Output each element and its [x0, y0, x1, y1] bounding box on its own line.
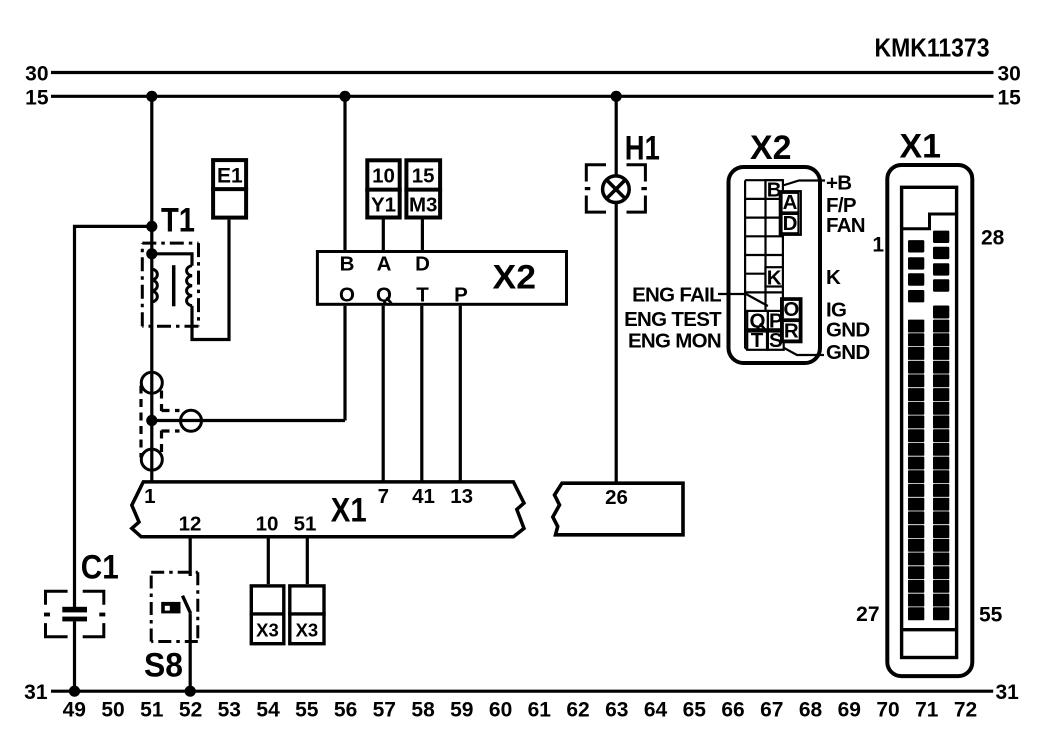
- svg-text:R: R: [784, 319, 799, 342]
- wire: distributor rotor horizontal line: [152, 419, 345, 422]
- svg-text:D: D: [783, 212, 798, 235]
- connector strip pin 26 outline: [553, 483, 683, 535]
- svg-text:66: 66: [721, 699, 744, 722]
- svg-text:51: 51: [140, 699, 164, 722]
- svg-text:53: 53: [218, 699, 241, 722]
- svg-text:72: 72: [954, 699, 977, 722]
- svg-text:O: O: [783, 298, 799, 321]
- svg-text:15: 15: [998, 87, 1022, 110]
- svg-text:56: 56: [334, 699, 357, 722]
- svg-text:51: 51: [294, 513, 317, 536]
- grid column numbers 49-72: [63, 699, 978, 722]
- svg-text:55: 55: [295, 699, 319, 722]
- connector X1 inner body: [902, 187, 957, 657]
- connector X1 top step: [902, 214, 957, 229]
- svg-text:65: 65: [683, 699, 707, 722]
- bus line 31: [51, 690, 993, 693]
- pointer line GND/S: [778, 345, 824, 355]
- connector X2 cell B: [766, 180, 783, 199]
- svg-text:X3: X3: [256, 620, 279, 641]
- svg-text:52: 52: [179, 699, 202, 722]
- svg-text:28: 28: [981, 227, 1005, 250]
- svg-text:P: P: [454, 284, 468, 307]
- junction distributor: [146, 415, 157, 426]
- junction line15/H1: [611, 91, 622, 102]
- svg-text:10: 10: [372, 164, 395, 187]
- switch S8 dash-dot box: [151, 572, 198, 641]
- transformer T1 primary coil: [152, 269, 158, 302]
- svg-text:63: 63: [605, 699, 628, 722]
- svg-text:K: K: [767, 266, 782, 289]
- lamp H1 dash-dot box: [586, 165, 645, 212]
- connector X2 cell T: [747, 332, 767, 350]
- wire: X2 strip pin P down to X1 strip pin 13: [459, 306, 462, 482]
- wire: X2 strip pin T down to X1 strip pin 41: [420, 306, 423, 482]
- svg-text:69: 69: [838, 699, 861, 722]
- connector X1 pins: [908, 231, 949, 621]
- svg-text:ENG TEST: ENG TEST: [624, 308, 722, 331]
- svg-text:10: 10: [256, 513, 279, 536]
- wire: line15 through lamp H1 down to strip 26: [615, 96, 618, 483]
- wire: branch at T1 going left to C1: [75, 226, 152, 607]
- svg-text:A: A: [377, 253, 392, 276]
- wire: T1 secondary top loop: [152, 254, 192, 266]
- wire: connector 15/M3 down to X2 strip pin D: [421, 219, 424, 250]
- connector X2 cell R: [783, 321, 800, 341]
- connector X1 bottom divider: [902, 628, 957, 631]
- svg-text:ENG FAIL: ENG FAIL: [632, 284, 721, 307]
- wire: switch S8 to bus 31: [189, 613, 192, 691]
- svg-text:31: 31: [24, 681, 48, 704]
- svg-text:1: 1: [872, 234, 884, 257]
- svg-text:B: B: [340, 253, 355, 276]
- svg-text:Q: Q: [376, 284, 392, 307]
- wire: X2 strip pin O down to distributor: [343, 306, 346, 421]
- svg-text:FAN: FAN: [826, 214, 865, 237]
- svg-text:13: 13: [450, 485, 473, 508]
- capacitor C1 dash-dot box: [46, 591, 104, 636]
- svg-text:T1: T1: [161, 202, 195, 240]
- connector strip X2 box: [317, 252, 566, 305]
- svg-text:67: 67: [760, 699, 783, 722]
- svg-text:Y1: Y1: [371, 193, 396, 216]
- capacitor C1 plates: [62, 607, 87, 613]
- svg-text:27: 27: [856, 603, 879, 626]
- svg-text:S8: S8: [144, 647, 183, 685]
- distributor dashed outline: [141, 386, 180, 458]
- bus line 30: [51, 71, 994, 74]
- svg-text:30: 30: [998, 63, 1021, 86]
- svg-text:O: O: [339, 284, 355, 307]
- pointer line ENG FAIL: [718, 294, 768, 306]
- svg-text:X1: X1: [331, 492, 367, 530]
- svg-text:49: 49: [63, 699, 86, 722]
- wire: C1 bottom plate to bus 31: [73, 621, 76, 691]
- svg-text:70: 70: [876, 699, 899, 722]
- svg-text:GND: GND: [826, 341, 869, 364]
- svg-text:M3: M3: [409, 193, 437, 216]
- svg-text:1: 1: [144, 485, 155, 508]
- svg-text:X2: X2: [493, 259, 537, 297]
- connector X2 cell K: [766, 267, 783, 286]
- svg-text:58: 58: [411, 699, 435, 722]
- E1 box divider: [211, 187, 248, 191]
- svg-text:T: T: [416, 284, 429, 307]
- distributor bottom contact circle: [141, 449, 162, 470]
- junction T1/C1 branch: [146, 221, 157, 232]
- svg-text:C1: C1: [81, 549, 119, 587]
- svg-text:30: 30: [25, 63, 48, 86]
- connector X2 pinout body: [729, 167, 821, 363]
- svg-text:KMK11373: KMK11373: [875, 33, 990, 63]
- junction line31/S8: [185, 686, 196, 697]
- svg-text:59: 59: [450, 699, 473, 722]
- svg-text:ENG MON: ENG MON: [628, 330, 721, 353]
- transformer T1 core: [172, 265, 176, 306]
- wire: line15 to T1 primary and distributor down to connector X1 pin 1: [150, 96, 153, 482]
- svg-text:41: 41: [412, 485, 435, 508]
- svg-text:57: 57: [373, 699, 396, 722]
- svg-text:K: K: [826, 266, 841, 289]
- connector X1 outer body: [887, 165, 972, 676]
- svg-text:60: 60: [489, 699, 512, 722]
- svg-text:15: 15: [25, 87, 49, 110]
- wire: X1 strip pin 12 down to switch S8: [189, 537, 192, 576]
- connector X2 cell D: [782, 214, 799, 233]
- svg-text:71: 71: [915, 699, 939, 722]
- connector X2 cell O: [783, 300, 800, 320]
- pointer line +B: [783, 181, 825, 186]
- wire: X2 strip pin Q down to X1 strip pin 7: [382, 306, 385, 482]
- connector X3 (pin 10) box: [251, 586, 283, 644]
- junction T1 secondary tap: [146, 248, 157, 259]
- svg-text:26: 26: [605, 486, 628, 509]
- svg-text:7: 7: [378, 485, 389, 508]
- connector X3 (pin 51) box: [290, 586, 324, 644]
- wire: X1 strip pin 10 down to X3: [267, 537, 270, 584]
- svg-text:A: A: [783, 191, 798, 214]
- lamp H1 symbol: [603, 176, 630, 203]
- wire: T1 secondary bottom loop to E1: [192, 220, 229, 340]
- svg-text:64: 64: [644, 699, 668, 722]
- svg-text:12: 12: [179, 513, 202, 536]
- connector X2 cell A: [782, 193, 799, 213]
- svg-text:X3: X3: [296, 620, 319, 641]
- svg-text:X2: X2: [750, 129, 792, 167]
- distributor rotor circle: [181, 410, 202, 431]
- connector X2 cell P: [768, 311, 784, 329]
- connector 15/M3 box: [406, 160, 440, 217]
- resistor block E1 box: [213, 160, 246, 218]
- svg-text:+B: +B: [826, 172, 851, 195]
- connector X2 cell S: [768, 332, 784, 350]
- transformer T1 dash-dot box: [142, 243, 198, 326]
- svg-text:T: T: [751, 329, 764, 352]
- svg-text:GND: GND: [826, 318, 869, 341]
- junction line15/T1: [146, 91, 157, 102]
- svg-text:50: 50: [101, 699, 124, 722]
- svg-text:E1: E1: [217, 164, 243, 187]
- connector strip X1 outline: [132, 482, 524, 537]
- connector X2 cells O/R outer box: [781, 298, 802, 342]
- connector 10/Y1 box: [367, 160, 399, 217]
- bus line 15: [51, 95, 994, 98]
- svg-text:68: 68: [799, 699, 823, 722]
- wire: X1 strip pin 51 down to X3: [306, 537, 309, 584]
- connector X2 cell Q: [747, 311, 768, 329]
- wire: line15 down to X2 strip pin B: [343, 96, 346, 250]
- wire: connector 10/Y1 down to X2 strip pin A: [382, 219, 385, 250]
- svg-text:31: 31: [996, 681, 1020, 704]
- svg-text:54: 54: [256, 699, 280, 722]
- svg-text:62: 62: [566, 699, 589, 722]
- junction line15/X2-B: [339, 91, 350, 102]
- transformer T1 secondary coil: [187, 266, 192, 306]
- switch S8 contact lever: [183, 596, 191, 614]
- connector X2 pin grid: [745, 180, 783, 348]
- svg-text:55: 55: [979, 604, 1003, 627]
- svg-text:61: 61: [528, 699, 552, 722]
- svg-text:15: 15: [412, 164, 435, 187]
- connector X2 cells A/D outer box: [780, 191, 801, 235]
- svg-text:D: D: [415, 253, 430, 276]
- junction line31/C1: [69, 686, 80, 697]
- svg-text:X1: X1: [900, 128, 942, 166]
- distributor top contact circle: [141, 372, 162, 393]
- switch S8 actuator block: [161, 602, 180, 614]
- X2 strip pin Q: [387, 298, 392, 304]
- svg-text:H1: H1: [625, 129, 660, 167]
